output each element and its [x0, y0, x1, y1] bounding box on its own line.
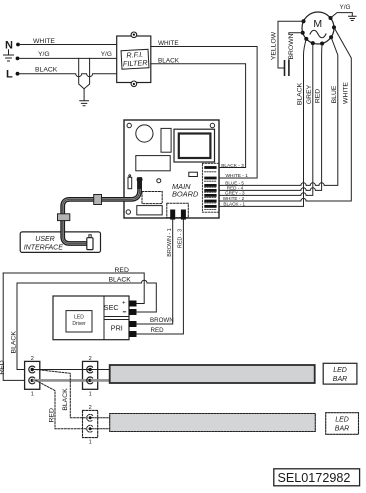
svg-text:BLACK - 3: BLACK - 3	[221, 163, 244, 169]
connector pin bar BLACK-1	[204, 205, 216, 208]
connector pin bar RED-4	[204, 189, 216, 192]
svg-text:RED: RED	[115, 267, 129, 274]
wire BLACK motor to pin BLACK-1	[217, 39, 307, 207]
svg-text:RED: RED	[48, 408, 55, 422]
svg-text:WHITE: WHITE	[343, 82, 350, 104]
driver pin SEC-	[129, 309, 137, 315]
svg-text:RED: RED	[315, 89, 322, 103]
svg-text:Y/G: Y/G	[340, 4, 351, 11]
wire BROWN motor to capacitor	[289, 33, 303, 68]
motor terminal WHITE	[332, 25, 336, 29]
label MAIN BOARD	[172, 182, 199, 199]
board large circle component	[136, 125, 153, 142]
connector crimp dashes	[205, 172, 217, 210]
svg-text:BLACK - 1: BLACK - 1	[223, 202, 245, 207]
board bottom connector pin 2	[181, 210, 186, 220]
board bottom connector pin 1	[170, 210, 175, 220]
svg-text:FILTER: FILTER	[123, 58, 149, 68]
node N terminal dot	[16, 43, 20, 47]
motor terminal Y/G	[329, 16, 333, 20]
board left rect component	[136, 156, 170, 171]
svg-text:Y/G: Y/G	[38, 51, 50, 58]
wire BLACK driver SEC- long horizontal with hop	[17, 280, 156, 312]
wire Y/G input to filter	[19, 57, 117, 59]
LED driver enclosure	[53, 296, 129, 340]
svg-text:2: 2	[31, 356, 34, 362]
cable ferrite bead left	[58, 214, 70, 221]
cable plug connector	[87, 235, 93, 250]
svg-text:YELLOW: YELLOW	[271, 31, 278, 60]
user interface cable core highlight	[63, 181, 140, 244]
svg-text:BLACK: BLACK	[11, 331, 18, 354]
motor terminal BLACK	[304, 37, 308, 41]
svg-text:BOARD: BOARD	[172, 190, 199, 199]
svg-text:BAR: BAR	[335, 425, 349, 432]
wire BLUE motor to pin BLUE-5 with hops	[217, 37, 338, 185]
wire BLACK input with hops over ground verticals	[19, 74, 117, 77]
svg-text:2: 2	[89, 356, 92, 362]
motor terminal RED	[320, 42, 324, 46]
wire GREY motor to pin GREY-3 with hop	[217, 43, 313, 195]
capacitor C motor	[285, 61, 289, 75]
node earth terminal dot	[16, 57, 20, 61]
svg-text:LED: LED	[333, 367, 347, 374]
svg-text:WHITE: WHITE	[158, 40, 179, 47]
svg-text:+: +	[122, 299, 126, 306]
svg-text:BLACK: BLACK	[35, 66, 58, 73]
wire BLACK filter output to connector pin BLACK-3	[151, 64, 246, 168]
wire RED left vertical to connector pin 1	[3, 273, 30, 380]
LED BAR label box 1	[323, 363, 357, 384]
svg-text:GREY - 3: GREY - 3	[225, 191, 245, 196]
svg-text:RED: RED	[151, 327, 165, 334]
board hole top-left	[127, 123, 131, 127]
wire Y/G ground branch left vertical	[79, 58, 84, 88]
filter bottom terminal	[131, 81, 137, 87]
connector 2 pin 1	[87, 377, 93, 384]
svg-text:BLACK: BLACK	[109, 276, 132, 283]
connector pin bar GREY-3	[204, 194, 216, 197]
svg-text:BLACK: BLACK	[297, 82, 304, 105]
board hole bottom-left	[126, 210, 130, 214]
ground symbol motor earth	[349, 16, 357, 20]
LED bar connector 1 housing	[25, 361, 40, 389]
LED bar 1	[110, 365, 315, 383]
wire WHITE motor to pin WHITE-2 with hop	[217, 27, 352, 201]
transformer outer rect	[174, 129, 215, 162]
label LED Driver	[72, 314, 86, 326]
motor terminal BROWN	[301, 31, 305, 35]
board hole top-right	[210, 123, 214, 127]
cable inner strand line	[63, 181, 140, 244]
svg-text:LED: LED	[335, 417, 349, 424]
cable tip dark	[137, 180, 142, 187]
wire RED motor to pin RED-4 with hops	[217, 44, 323, 191]
R.F.I. filter box	[117, 36, 151, 83]
dashed wire RED connector1 to connector3	[36, 380, 87, 428]
connector 3 pin 2 dashed	[87, 414, 93, 421]
svg-text:WHITE - 2: WHITE - 2	[223, 196, 245, 201]
svg-text:1: 1	[89, 391, 92, 397]
driver pin PRI red	[129, 331, 137, 337]
LED bar 2 dashed	[110, 414, 316, 432]
connector pin bar BLUE-5	[204, 184, 216, 187]
connector pin bar BLACK-3	[204, 166, 216, 169]
board bottom rect component	[137, 206, 162, 215]
motor terminal BLUE	[329, 35, 333, 39]
label BROWN with background	[288, 33, 295, 59]
driver pin PRI brown	[129, 321, 137, 327]
filter label box R.F.I. FILTER	[121, 49, 149, 69]
transformer inner rect	[179, 134, 211, 159]
svg-text:Driver: Driver	[72, 321, 86, 327]
node L terminal dot	[16, 72, 20, 76]
svg-text:BLACK: BLACK	[62, 388, 69, 411]
driver pin SEC+	[129, 301, 137, 307]
svg-text:2: 2	[89, 405, 92, 411]
svg-text:RED: RED	[0, 360, 6, 374]
svg-text:BLUE: BLUE	[331, 85, 338, 103]
user interface box	[20, 232, 100, 253]
wire RED-3 board to driver PRI	[137, 220, 184, 334]
board capacitor component	[128, 175, 132, 189]
dashed wire BLACK connector1 to connector3	[36, 370, 87, 418]
board bottom connector dashed	[167, 203, 189, 217]
svg-text:M: M	[313, 18, 322, 30]
svg-text:GREY: GREY	[306, 84, 313, 104]
motor M circle	[302, 12, 334, 44]
svg-text:Y/G: Y/G	[101, 51, 112, 58]
user interface cable curved	[63, 181, 140, 244]
board dashed connector footprint	[142, 192, 162, 204]
filter top terminal	[131, 32, 137, 38]
wire connector2 to LED bar upper	[92, 369, 110, 371]
svg-text:USER: USER	[35, 236, 54, 243]
svg-text:INTERFACE: INTERFACE	[24, 244, 63, 251]
svg-text:WHITE: WHITE	[33, 38, 55, 45]
main board PCB outline	[124, 120, 219, 218]
wire YELLOW motor to capacitor	[278, 21, 304, 68]
svg-text:WHITE - 1: WHITE - 1	[226, 173, 249, 179]
svg-text:BAR: BAR	[333, 376, 347, 383]
connector pin bar WHITE-1	[204, 177, 216, 180]
svg-text:RED - 3: RED - 3	[178, 229, 184, 248]
right connector dashed housing	[202, 163, 219, 212]
wire connector1 to connector2 upper	[34, 369, 88, 371]
cable ferrite bead top	[94, 195, 102, 205]
part number box SEL0172982	[274, 469, 360, 486]
LED bar connector 2 housing	[83, 361, 98, 389]
wire WHITE input N to filter	[20, 44, 117, 46]
wire Y/G motor to earth	[331, 13, 353, 18]
board small bar component	[189, 172, 198, 176]
wire WHITE filter output to connector pin WHITE-1	[151, 47, 257, 179]
svg-text:SEC: SEC	[104, 303, 119, 312]
motor terminal GREY	[311, 41, 315, 45]
wire Y/G ground branch right vertical	[84, 58, 90, 100]
dashed wire connector3 to LED bar 2 lower	[92, 428, 110, 430]
board vertical rect component	[161, 128, 171, 152]
connector 3 pin 1 dashed	[87, 425, 93, 432]
connector pin bar WHITE-2	[204, 200, 216, 203]
connector 2 pin 2	[87, 366, 93, 373]
svg-text:BROWN - 1: BROWN - 1	[167, 228, 173, 256]
wire connector1 to connector2 lower	[34, 379, 88, 382]
svg-text:LED: LED	[74, 314, 84, 320]
motor sine wave symbol	[310, 30, 326, 38]
svg-text:1: 1	[31, 391, 34, 397]
wire BLACK left vertical to connector pin 2	[17, 283, 30, 370]
svg-text:L: L	[6, 69, 13, 81]
svg-text:SEL0172982: SEL0172982	[278, 471, 351, 485]
ground symbol chassis earth below input	[80, 101, 89, 106]
label minus	[123, 311, 125, 313]
LED bar connector 3 housing dashed	[83, 410, 98, 437]
wire RED driver SEC+ long horizontal	[3, 273, 144, 304]
svg-text:1: 1	[89, 440, 92, 446]
svg-text:BROWN: BROWN	[150, 317, 174, 324]
connector 1 pin 1	[29, 377, 35, 384]
cable tip end cap	[137, 178, 143, 181]
dashed wire connector3 to LED bar 2 upper	[92, 417, 110, 419]
wire connector2 to LED bar lower	[92, 379, 110, 382]
board small hole	[157, 179, 161, 183]
LED driver inner box	[66, 311, 92, 332]
driver divider lines	[104, 296, 129, 340]
svg-text:PRI: PRI	[111, 323, 123, 332]
svg-text:BLACK: BLACK	[158, 57, 180, 64]
wire BROWN-1 board to driver PRI	[137, 220, 173, 324]
svg-text:BROWN: BROWN	[288, 33, 295, 59]
connector 1 pin 2	[29, 366, 35, 373]
label USER INTERFACE	[24, 236, 63, 251]
motor terminal YELLOW	[302, 19, 306, 23]
LED BAR label box 2 dashed	[326, 413, 359, 435]
ground symbol input earth	[4, 50, 14, 61]
